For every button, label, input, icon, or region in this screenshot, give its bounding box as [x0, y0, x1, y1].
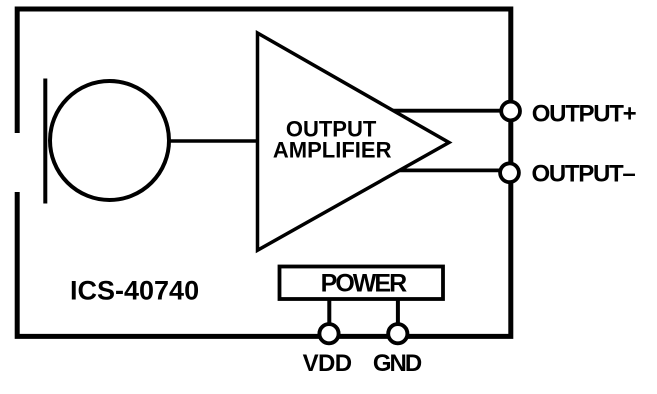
svg-text:OUTPUT–: OUTPUT–: [532, 161, 636, 188]
svg-text:VDD: VDD: [303, 350, 352, 377]
svg-text:ICS-40740: ICS-40740: [70, 276, 199, 306]
svg-text:POWER: POWER: [321, 269, 407, 297]
svg-text:GND: GND: [373, 350, 422, 377]
svg-text:OUTPUT+: OUTPUT+: [532, 101, 637, 128]
svg-text:AMPLIFIER: AMPLIFIER: [273, 137, 392, 162]
